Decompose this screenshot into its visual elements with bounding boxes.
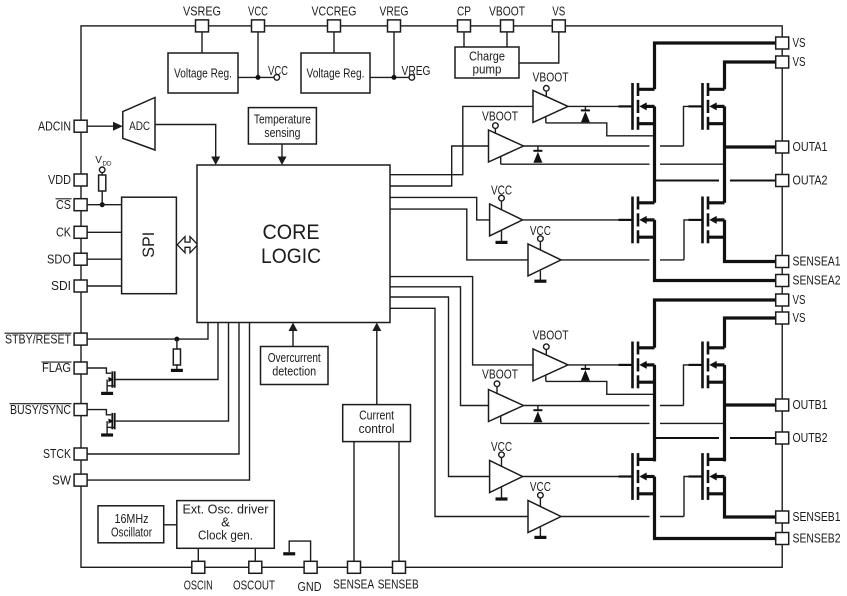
wire CK pin to SPI bbox=[87, 231, 122, 233]
wire VCCREG pin to Voltage Reg 2 bbox=[333, 32, 335, 53]
wire OSCIN to ext osc box bbox=[197, 548, 199, 561]
wire OUTA1 from right rail bbox=[725, 145, 777, 148]
svg-text:SENSEA: SENSEA bbox=[333, 578, 374, 592]
diode D2 bootstrap bbox=[537, 146, 539, 151]
arrow temperature sensing to core bbox=[281, 144, 283, 159]
pin VDD bbox=[74, 174, 87, 186]
pin VBOOT bbox=[501, 20, 514, 32]
svg-text:DD: DD bbox=[103, 161, 112, 168]
overcurrent detection box bbox=[261, 347, 329, 385]
wire resistor to ground bbox=[176, 365, 178, 369]
pin CP bbox=[458, 20, 471, 32]
wire CP pin to charge pump bbox=[463, 32, 465, 47]
wire U1 output to Q1 gate bbox=[568, 105, 631, 107]
pin STCK bbox=[74, 448, 87, 460]
wire D2 return to phase node bbox=[500, 157, 502, 165]
wire SW to core bbox=[87, 323, 249, 481]
pin VS B2 bbox=[776, 312, 789, 324]
wire STBY/RESET to core bbox=[87, 323, 208, 340]
svg-text:Voltage Reg.: Voltage Reg. bbox=[307, 66, 365, 81]
svg-text:Voltage Reg.: Voltage Reg. bbox=[174, 66, 232, 81]
transistor Q6 bridge B high-right bbox=[689, 342, 725, 389]
svg-text:VS: VS bbox=[793, 55, 806, 69]
pin VCCREG bbox=[328, 20, 341, 32]
wire phase node B left rail bbox=[653, 365, 656, 462]
wire current control to SENSEA pin bbox=[353, 442, 355, 562]
svg-text:CK: CK bbox=[56, 226, 72, 240]
pin FLAG bbox=[74, 362, 87, 374]
svg-text:OSCOUT: OSCOUT bbox=[233, 579, 275, 593]
svg-text:VDD: VDD bbox=[48, 173, 71, 187]
svg-text:VBOOT: VBOOT bbox=[489, 4, 525, 18]
wire VS pin to charge pump right side bbox=[519, 32, 559, 63]
svg-text:sensing: sensing bbox=[264, 125, 300, 140]
op-amp ADC trapezoid bbox=[123, 98, 155, 151]
svg-text:SDO: SDO bbox=[47, 252, 71, 266]
temperature sensing box bbox=[248, 108, 316, 144]
svg-text:OSCIN: OSCIN bbox=[184, 579, 213, 593]
charge pump box bbox=[455, 47, 519, 78]
svg-text:FLAG: FLAG bbox=[42, 361, 71, 375]
wire ADC output to core logic bbox=[155, 125, 216, 159]
wire phase node B right rail bbox=[723, 365, 726, 462]
svg-text:VBOOT: VBOOT bbox=[482, 367, 518, 381]
wire VREG pin to VREG output node bbox=[393, 32, 395, 78]
transistor Q1 bridge A high-left bbox=[619, 83, 655, 130]
wire D1 return to phase node bbox=[545, 117, 547, 123]
ground U7 bbox=[501, 487, 503, 497]
wire phase node A left rail bbox=[653, 106, 656, 202]
diode D3 bootstrap bbox=[584, 365, 586, 369]
op-amp U2 gate driver VBOOT A high-right bbox=[489, 130, 524, 162]
pin VS B1 bbox=[776, 294, 789, 306]
svg-text:VCC: VCC bbox=[268, 64, 288, 78]
wire VBOOT pin to charge pump bbox=[506, 32, 508, 47]
op-amp U8 gate driver VCC B low-right bbox=[528, 501, 561, 533]
pin STBY/RESET bbox=[74, 333, 87, 345]
core logic feed line to driver U2 bbox=[390, 146, 489, 186]
svg-text:VS: VS bbox=[793, 311, 806, 325]
svg-text:CORE: CORE bbox=[263, 221, 320, 244]
16MHz oscillator box bbox=[98, 506, 164, 543]
ground STBY resistor bbox=[171, 369, 183, 371]
core logic feed line to driver U6 bbox=[390, 287, 489, 406]
transistor Q7 bridge B low-left bbox=[619, 453, 655, 500]
core logic feed line to driver U4 bbox=[390, 209, 528, 260]
pin OSCOUT bbox=[249, 561, 262, 573]
SPI block bbox=[122, 197, 177, 294]
arrow current control to core bbox=[376, 329, 378, 405]
resistor STBY pull-up bbox=[173, 349, 180, 365]
wire phase node A right rail bbox=[723, 106, 726, 202]
pin VS A2 bbox=[776, 56, 789, 68]
transistor Q4 bridge A low-right bbox=[689, 197, 725, 244]
svg-text:VBOOT: VBOOT bbox=[533, 329, 569, 343]
pin SENSEB bottom bbox=[393, 561, 406, 573]
pin SENSEA2 bbox=[776, 275, 789, 287]
diode D4 bootstrap bbox=[537, 406, 539, 411]
op-amp U1 gate driver VBOOT A high-left bbox=[533, 90, 568, 122]
op-amp U7 gate driver VCC B low-left bbox=[490, 461, 523, 493]
svg-text:STCK: STCK bbox=[43, 447, 71, 461]
wire VCC pin to VCC output node bbox=[257, 32, 259, 78]
svg-text:BUSY/SYNC: BUSY/SYNC bbox=[10, 403, 71, 417]
wire resistor to CS line bbox=[101, 191, 103, 205]
wire VS rail A left top bbox=[655, 43, 777, 89]
wire sense node A left rail to SENSEA2 bbox=[655, 220, 777, 281]
svg-text:Clock gen.: Clock gen. bbox=[198, 528, 253, 543]
svg-text:detection: detection bbox=[272, 364, 316, 379]
wire FLAG drain to core bbox=[115, 323, 218, 380]
svg-text:SENSEA2: SENSEA2 bbox=[793, 274, 841, 288]
svg-text:SENSEB2: SENSEB2 bbox=[793, 532, 841, 546]
wire current control to SENSEB pin bbox=[398, 442, 400, 562]
wire U3 output to Q3 gate bbox=[523, 219, 632, 221]
transistor FLAG open-drain bbox=[87, 368, 115, 393]
wire D3 return to phase node bbox=[545, 375, 547, 381]
wire VS rail B right top bbox=[725, 318, 777, 348]
svg-text:VCC: VCC bbox=[248, 4, 268, 18]
voltage regulator box 1 bbox=[168, 53, 238, 93]
svg-text:OUTA2: OUTA2 bbox=[793, 174, 828, 188]
svg-text:VS: VS bbox=[552, 4, 565, 18]
svg-text:LOGIC: LOGIC bbox=[261, 245, 321, 268]
svg-text:VS: VS bbox=[793, 293, 806, 307]
core logic feed line to driver U5 bbox=[390, 277, 533, 365]
wire OUTB2 from left rail bbox=[655, 437, 720, 439]
pin SDI bbox=[74, 280, 87, 292]
svg-text:VBOOT: VBOOT bbox=[533, 70, 569, 84]
pin BUSY/SYNC bbox=[74, 404, 87, 416]
svg-text:SDI: SDI bbox=[51, 279, 71, 293]
ground U4 bbox=[539, 271, 541, 280]
ground U8 bbox=[539, 527, 541, 536]
transistor Q2 bridge A high-right bbox=[689, 83, 725, 130]
wire VReg1 output to VCC terminal bbox=[238, 76, 274, 78]
svg-text:ADC: ADC bbox=[129, 119, 150, 133]
junction dot STBY bbox=[174, 337, 179, 342]
voltage regulator box 2 bbox=[301, 53, 370, 93]
wire D4 return to phase node bbox=[500, 416, 502, 423]
svg-text:VCCREG: VCCREG bbox=[312, 4, 357, 18]
wire U7 output to Q7 gate bbox=[523, 476, 632, 478]
terminal circle VREG bbox=[409, 75, 415, 81]
wire VS rail A right top bbox=[725, 62, 777, 89]
svg-text:SENSEB: SENSEB bbox=[378, 578, 419, 592]
pin CK bbox=[74, 226, 87, 238]
core logic feed line to driver U1 bbox=[390, 106, 533, 174]
pin OSCIN bbox=[192, 561, 205, 573]
svg-text:VS: VS bbox=[793, 36, 806, 50]
pin SENSEA1 bbox=[776, 256, 789, 268]
svg-text:VSREG: VSREG bbox=[183, 4, 221, 18]
wire VReg2 output to VREG terminal bbox=[370, 76, 409, 78]
CORE LOGIC block bbox=[197, 165, 390, 323]
pin OUTB1 bbox=[776, 399, 789, 411]
wire OSCOUT to ext osc box bbox=[254, 548, 256, 561]
wire oscillator to ext osc driver bbox=[164, 524, 177, 526]
ground hook at GND pin bbox=[289, 541, 310, 561]
svg-text:Oscillator: Oscillator bbox=[111, 525, 152, 540]
junction dot on CS line bbox=[100, 202, 105, 207]
current control box bbox=[343, 405, 411, 442]
svg-text:CS: CS bbox=[56, 198, 71, 212]
pin SENSEA bottom bbox=[348, 561, 361, 573]
svg-text:OUTB1: OUTB1 bbox=[793, 398, 828, 412]
svg-text:GND: GND bbox=[298, 580, 322, 594]
pin GND bbox=[304, 561, 317, 573]
wire sense node A right rail to SENSEA1 bbox=[725, 220, 777, 262]
ADC input arrow from ADCIN bbox=[87, 125, 114, 127]
pin SDO bbox=[74, 253, 87, 265]
svg-text:pump: pump bbox=[473, 62, 502, 77]
svg-text:ADCIN: ADCIN bbox=[38, 119, 71, 133]
wire U5 output to Q5 gate bbox=[568, 364, 631, 366]
ground U3 bbox=[501, 231, 503, 241]
svg-text:VREG: VREG bbox=[402, 64, 431, 78]
op-amp U3 gate driver VCC A low-left bbox=[490, 204, 523, 236]
svg-text:SW: SW bbox=[52, 473, 71, 487]
svg-text:V: V bbox=[95, 155, 102, 166]
wire U2 output to Q2 gate bbox=[524, 145, 650, 147]
wire STBY junction to resistor bbox=[176, 339, 178, 349]
wire sense node B right rail to SENSEB1 bbox=[725, 477, 777, 518]
ext osc driver and clock gen box bbox=[177, 501, 274, 549]
transistor Q3 bridge A low-left bbox=[619, 197, 655, 244]
pin SENSEB1 bbox=[776, 511, 789, 523]
wire CS pin to SPI bbox=[87, 204, 122, 206]
pin VREG bbox=[388, 20, 401, 32]
terminal circle VCC bbox=[274, 75, 280, 81]
wire U8 output to Q8 gate bbox=[561, 516, 650, 518]
svg-text:CP: CP bbox=[457, 4, 471, 18]
svg-text:VREG: VREG bbox=[380, 4, 409, 18]
wire U6 output to Q6 gate bbox=[524, 405, 650, 407]
svg-text:SENSEB1: SENSEB1 bbox=[793, 510, 841, 524]
core logic feed line to driver U7 bbox=[390, 297, 490, 477]
pin VCC bbox=[252, 20, 265, 32]
svg-text:STBY/RESET: STBY/RESET bbox=[5, 332, 71, 346]
svg-text:VBOOT: VBOOT bbox=[482, 109, 518, 123]
svg-text:OUTB2: OUTB2 bbox=[793, 431, 828, 445]
svg-text:OUTA1: OUTA1 bbox=[793, 140, 828, 154]
core logic feed line to driver U8 bbox=[390, 308, 528, 516]
op-amp U4 gate driver VCC A low-right bbox=[528, 244, 561, 276]
op-amp U6 gate driver VBOOT B high-right bbox=[489, 390, 524, 422]
junction dot VCC bbox=[256, 75, 261, 80]
bidirectional arrow SPI to core bbox=[177, 237, 197, 253]
transistor BUSY/SYNC open-drain bbox=[87, 410, 115, 435]
wire BUSY drain to core bbox=[115, 323, 229, 422]
pin ADCIN bbox=[74, 120, 87, 132]
wire sense node B left rail to SENSEB2 bbox=[655, 477, 777, 539]
core logic feed line to driver U3 bbox=[390, 197, 490, 220]
chip boundary border bbox=[81, 26, 782, 567]
pin OUTB2 bbox=[776, 432, 789, 444]
svg-text:SPI: SPI bbox=[140, 232, 158, 258]
junction dot VREG bbox=[392, 75, 397, 80]
arrow overcurrent detection to core bbox=[292, 329, 294, 347]
transistor Q5 bridge B high-left bbox=[619, 342, 655, 389]
pin VSREG bbox=[196, 20, 209, 32]
pin OUTA1 bbox=[776, 141, 789, 153]
wire OUTB1 from right rail bbox=[725, 403, 777, 406]
pin SW bbox=[74, 474, 87, 486]
svg-text:SENSEA1: SENSEA1 bbox=[793, 255, 841, 269]
pin VS A1 bbox=[776, 37, 789, 49]
resistor VDD pull-up bbox=[99, 175, 106, 191]
pin OUTA2 bbox=[776, 175, 789, 187]
wire VSREG pin to Voltage Reg 1 bbox=[201, 32, 203, 53]
wire SDI pin to SPI bbox=[87, 285, 122, 287]
op-amp U5 gate driver VBOOT B high-left bbox=[533, 349, 568, 381]
pin VS top bbox=[552, 20, 565, 32]
svg-text:control: control bbox=[359, 421, 395, 436]
wire VS rail B left top bbox=[655, 300, 777, 348]
diode D1 bootstrap bbox=[584, 106, 586, 110]
wire VDD circle to resistor bbox=[101, 172, 103, 175]
wire SDO pin to SPI bbox=[87, 258, 122, 260]
pin CS bbox=[74, 199, 87, 211]
wire U4 output to Q4 gate bbox=[561, 259, 650, 261]
pin SENSEB2 bbox=[776, 533, 789, 545]
transistor Q8 bridge B low-right bbox=[689, 453, 725, 500]
wire STCK to core bbox=[87, 323, 239, 455]
wire OUTA2 from left rail bbox=[655, 179, 720, 181]
